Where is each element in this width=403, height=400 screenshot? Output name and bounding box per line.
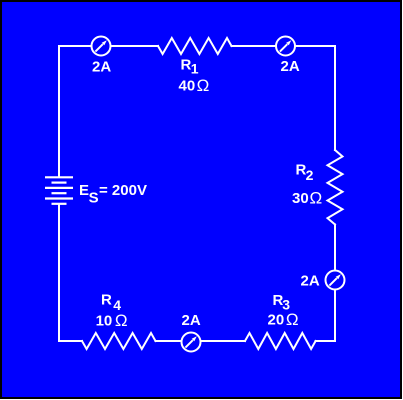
svg-text:40: 40 — [179, 78, 196, 95]
battery short plate 3 — [52, 203, 67, 205]
wire left side top segment — [58, 46, 60, 177]
resistor R1 — [158, 38, 232, 54]
wire R3 to bottom ammeter — [201, 340, 245, 342]
wire left side bottom segment — [58, 204, 60, 341]
svg-text:Ω: Ω — [310, 188, 323, 207]
resistor R3 — [245, 333, 316, 349]
svg-text:= 200V: = 200V — [99, 182, 147, 199]
wire right side down to R2 — [334, 46, 336, 150]
wire side ammeter to bottom-right corner — [334, 291, 336, 341]
battery short plate 1 — [52, 182, 67, 184]
resistor R2 — [328, 150, 343, 225]
wire left ammeter to R1 — [111, 45, 158, 47]
svg-text:2A: 2A — [92, 59, 111, 76]
ammeter M4 bottom — [182, 333, 201, 352]
svg-text:30: 30 — [292, 190, 309, 207]
svg-text:Ω: Ω — [115, 311, 128, 330]
wire R1 to right ammeter — [232, 45, 276, 47]
battery long plate 1 — [45, 176, 73, 178]
ammeter M2 top-right — [276, 37, 295, 56]
svg-text:R: R — [101, 292, 112, 309]
wire top-left corner to left ammeter — [59, 45, 91, 47]
ammeter M1 top-left — [92, 37, 111, 56]
svg-text:2A: 2A — [301, 273, 320, 290]
wire R2 to side ammeter — [334, 225, 336, 272]
svg-text:20: 20 — [268, 312, 285, 329]
svg-text:S: S — [89, 189, 99, 206]
ammeter M3 right side — [326, 271, 345, 290]
wire bottom ammeter to R4 — [156, 340, 182, 342]
battery short plate 2 — [52, 192, 67, 194]
svg-text:Ω: Ω — [197, 76, 210, 95]
svg-text:Ω: Ω — [286, 310, 299, 329]
wire R4 to bottom-left corner — [59, 340, 82, 342]
svg-text:E: E — [79, 182, 89, 199]
svg-text:2A: 2A — [281, 58, 300, 75]
battery ES plates — [45, 177, 73, 204]
battery long plate 2 — [45, 187, 73, 189]
svg-text:2A: 2A — [182, 312, 201, 329]
svg-text:1: 1 — [191, 61, 199, 77]
wire bottom-right corner to R3 — [316, 340, 335, 342]
battery long plate 3 — [45, 197, 73, 199]
svg-text:10: 10 — [96, 313, 113, 330]
svg-text:2: 2 — [306, 167, 314, 183]
wire right ammeter to top-right corner — [296, 45, 335, 47]
resistor R4 — [82, 333, 156, 349]
